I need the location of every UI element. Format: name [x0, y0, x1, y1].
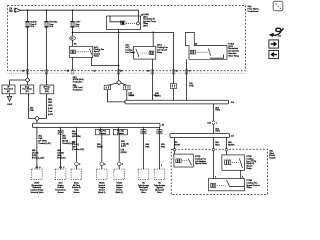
junction dot K3 drop: [152, 32, 154, 34]
wire inline fuse to rail J-B: [107, 90, 125, 102]
sensor component box Mass S3: [71, 169, 82, 180]
svg-text:PNK: PNK: [30, 110, 35, 112]
wire label 54B: [121, 141, 129, 148]
svg-text:63: 63: [175, 71, 177, 73]
wire bus2 to relay K3: [152, 32, 154, 46]
svg-text:(S/P): (S/P): [143, 25, 148, 27]
sensor label Mass S3: [72, 182, 81, 193]
connector circle D4: [100, 162, 104, 166]
box IP fuse block C: [40, 85, 54, 94]
wire Y768 from relay K4: [186, 71, 188, 100]
junction dot K1 drop: [118, 32, 120, 34]
connector pin B5: [71, 70, 74, 74]
svg-text:D: D: [122, 164, 124, 166]
pin A EVAP: [36, 166, 39, 168]
relay K4 switch: [208, 49, 210, 56]
inline fuse 60: [58, 130, 63, 134]
svg-text:PNK: PNK: [145, 146, 150, 148]
connector row dotted line: [8, 72, 246, 74]
svg-text:C: C: [63, 167, 65, 169]
connector pin 45: [26, 70, 29, 74]
junction dot bus2: [72, 32, 74, 34]
power rail J-B upper: [125, 100, 229, 104]
box IP fuse block B: [21, 85, 34, 94]
svg-text:5(B): 5(B): [48, 99, 52, 101]
wire label above ECT: [57, 150, 65, 160]
bus B+ wire: [21, 10, 139, 16]
svg-text:RD/x1: RD/x1: [154, 95, 159, 97]
fuse block underhood label: [248, 6, 260, 13]
relay K2 pin 86 label: [74, 43, 76, 45]
svg-text:(Bank 2): (Bank 2): [116, 192, 124, 194]
wire splice S1 down: [27, 82, 29, 85]
sensor component box HO2S S4: [97, 169, 108, 180]
svg-text:Production: Production: [73, 89, 83, 92]
relay K2 switch: [89, 49, 92, 55]
svg-text:Sensor: Sensor: [73, 192, 79, 194]
sensor label T/C S7: [154, 182, 166, 193]
battery feed arrow: [15, 8, 21, 12]
relay K2 linkage: [76, 51, 89, 53]
svg-text:G103: G103: [7, 104, 12, 106]
wire fuse F1 down: [27, 27, 29, 71]
svg-text:Sensor: Sensor: [58, 192, 64, 194]
relay K4 coil: [190, 50, 195, 54]
icon back arrow button: [269, 50, 279, 58]
wire circle to sensor3: [75, 166, 77, 170]
relay K3 left label: [125, 45, 135, 54]
wire splice S3 to rail J2B: [36, 121, 38, 124]
svg-text:45: 45: [22, 71, 24, 73]
cooling fan enclosure label: [269, 150, 276, 160]
wire label 45B: [38, 135, 51, 146]
wire relay KC to relay KD: [240, 170, 242, 178]
bus ignition wire: [73, 32, 174, 70]
wire label 5 PNK stack: [48, 99, 53, 116]
wire rail to connector K10: [212, 104, 214, 120]
svg-text:(LAT): (LAT): [121, 145, 126, 148]
svg-text:Cmpmt: Cmpmt: [269, 156, 276, 159]
wire 33G to relay KA: [174, 138, 176, 155]
wire relay K1 to bus2: [118, 30, 120, 33]
relay KC label: [246, 156, 256, 170]
wire rail to HO2S1: [100, 127, 102, 161]
junction dot fuse3: [72, 9, 74, 11]
inline fuse on bus2 tail: [170, 84, 176, 89]
connector K10 label: [207, 122, 211, 124]
svg-text:1: 1: [161, 165, 162, 167]
wire splice S1 left branch: [10, 80, 26, 85]
svg-text:J-B: J-B: [231, 136, 235, 138]
svg-text:Valve: Valve: [157, 192, 162, 194]
relay K1 switch: [136, 22, 139, 25]
svg-text:U2: U2: [71, 38, 73, 40]
wire bus to fuse F2: [46, 10, 48, 21]
svg-text:Valve Relay: Valve Relay: [228, 55, 240, 57]
splice S2 diamond: [117, 80, 122, 85]
svg-text:Solenoid Valve: Solenoid Valve: [31, 192, 44, 194]
svg-text:Relay: Relay: [246, 168, 252, 170]
svg-text:(LAT): (LAT): [48, 113, 53, 116]
svg-text:Underhood: Underhood: [248, 10, 260, 13]
icon pan-cursor button: [273, 1, 283, 10]
svg-text:Relay: Relay: [157, 52, 163, 54]
relay KA linkage: [182, 160, 187, 162]
relay KD label: [246, 180, 260, 189]
svg-text:Prodctn: Prodctn: [117, 132, 124, 135]
svg-text:B5: B5: [67, 71, 69, 73]
relay K3 box: [134, 47, 156, 60]
wire label 45B b: [32, 150, 45, 160]
wire label L8A: [129, 92, 136, 97]
relay KD internal wire: [230, 186, 245, 188]
wire label Y768: [189, 83, 195, 87]
sensor component box T/C S6: [138, 169, 149, 180]
svg-text:Production: Production: [73, 81, 83, 84]
wire label 05A upper: [215, 106, 220, 111]
relay K3 linkage: [140, 52, 149, 54]
svg-text:(L40): (L40): [48, 108, 53, 110]
sensor label EVAP S1: [30, 181, 43, 193]
relay KC box: [222, 155, 245, 170]
svg-text:Prodctn(-LAT): Prodctn(-LAT): [38, 142, 51, 145]
wire splice S2 right branch: [121, 83, 127, 85]
svg-text:(Bank 1): (Bank 1): [98, 192, 106, 194]
power rail J-B lower: [170, 134, 230, 138]
sensor label HO2S S4: [98, 182, 106, 193]
sensor component box EVAP S1: [32, 169, 43, 180]
wire 05B to relay KC: [225, 138, 227, 155]
connector pin 36: [117, 70, 120, 74]
box IP fuse block A: [2, 85, 15, 94]
rail J-B lower label: [231, 136, 235, 138]
wire label 05A mid: [215, 127, 220, 132]
wire fuse F3 down: [72, 27, 74, 36]
fuse F3 label: [75, 22, 81, 29]
fuse F2: [45, 22, 49, 27]
splice S3 diamond: [35, 116, 40, 121]
svg-text:1640: 1640: [48, 105, 53, 107]
relay KA label: [195, 156, 208, 165]
relay K4 outline: [186, 32, 228, 59]
pin C ECT: [59, 166, 62, 168]
rail J-B upper label: [231, 102, 235, 104]
connector pin 63: [172, 70, 175, 74]
svg-text:RD/WT: RD/WT: [174, 144, 181, 146]
wire inline box to rail J-B: [173, 89, 175, 101]
relay K3 right label: [157, 44, 168, 54]
svg-text:(Prodctn-LAT): (Prodctn-LAT): [32, 157, 45, 160]
wire rail to EVAP valve: [36, 127, 38, 169]
wire rail to HO2S2: [117, 127, 120, 161]
wire inline fuse right down: [126, 90, 128, 101]
svg-text:PNK: PNK: [161, 146, 166, 148]
relay module box LAN: [113, 129, 127, 134]
connector pin 33G entry: [174, 149, 176, 151]
wire rail to wastegate: [143, 127, 145, 169]
sensor component box HO2S S5: [114, 169, 125, 180]
pin 1 bypass: [161, 165, 162, 167]
svg-text:D: D: [79, 164, 81, 166]
relay KD coil: [211, 184, 216, 188]
relay K2 label: [94, 46, 104, 57]
wire label 05B: [228, 142, 235, 146]
wire oval to relay K2: [72, 41, 74, 47]
relay KC coil: [225, 160, 231, 165]
connector pin 43: [151, 70, 154, 74]
wire connector K10 to rail J-B lower: [212, 125, 214, 134]
svg-text:RD/x1: RD/x1: [129, 95, 134, 97]
rail J2B label: [162, 125, 165, 127]
svg-text:RD/WT: RD/WT: [228, 144, 235, 146]
icon forward arrow button: [269, 40, 279, 48]
wire bus to fuse F3: [72, 10, 74, 21]
relay KD switch: [227, 180, 230, 186]
svg-text:(Prodctn): (Prodctn): [57, 157, 65, 160]
svg-text:RD/1: RD/1: [215, 131, 220, 133]
svg-text:J-B: J-B: [231, 102, 235, 104]
wire label 460 PNK: [30, 107, 35, 111]
relay K4 label: [228, 43, 240, 57]
svg-text:43: 43: [147, 71, 149, 73]
svg-text:(S/I-GRN): (S/I-GRN): [72, 136, 81, 138]
left pin labels K86: [73, 85, 83, 92]
connector pin 05A entry: [212, 149, 214, 151]
sensor label HO2S S5: [116, 182, 124, 193]
svg-text:RD: RD: [9, 11, 13, 13]
svg-text:RD/1: RD/1: [215, 144, 220, 146]
wire label C6P: [155, 93, 162, 97]
relay KA switch: [188, 159, 191, 166]
svg-text:(Prodctn-LAT): (Prodctn-LAT): [72, 148, 85, 151]
pin number labels row: [22, 71, 24, 73]
relay K2 box: [70, 46, 93, 57]
relay KD box: [209, 179, 245, 191]
svg-text:A: A: [39, 166, 41, 169]
left pin labels K83: [73, 77, 84, 84]
sensor label T/C S6: [138, 182, 150, 193]
connector oval C2: [70, 36, 76, 40]
pin A label KD right: [242, 176, 244, 179]
wire splice S2 left branch: [107, 83, 116, 85]
svg-text:Relay: Relay: [94, 55, 99, 57]
sensor label ECT S2: [55, 182, 66, 193]
svg-text:(PK/B): (PK/B): [121, 152, 127, 154]
svg-text:(IP): (IP): [7, 91, 10, 93]
fuse F1: [26, 22, 30, 27]
connector circle D3: [75, 162, 79, 166]
connector circle D5: [117, 162, 121, 166]
relay K1 box: [107, 16, 141, 30]
relay K1 coil wiring: [110, 16, 123, 25]
cooling fan relay dashed enclosure: [171, 149, 267, 194]
wire pin45 to splice S1: [27, 71, 29, 78]
relay module box FAN: [95, 129, 109, 134]
fuse F3: [71, 22, 75, 27]
relay K1 label: [143, 13, 156, 27]
junction dot switch node: [118, 65, 120, 67]
wire bus to fuse F1: [27, 10, 29, 21]
svg-text:86: 86: [74, 43, 76, 45]
svg-text:2B: 2B: [162, 125, 165, 127]
junction dot fuse1: [27, 9, 29, 11]
wire 05A to relay KD: [212, 138, 214, 179]
connector pin 47: [185, 70, 188, 74]
svg-text:Valve: Valve: [141, 192, 146, 194]
labels above rail: [129, 95, 134, 97]
wire label 05A lower: [215, 141, 220, 146]
svg-text:36: 36: [120, 71, 122, 73]
wire rail to sensor3: [75, 127, 77, 161]
wire rail to bypass valve: [159, 127, 161, 169]
wire rail to ECT sensor: [60, 127, 62, 169]
wire label 39G: [161, 144, 166, 148]
svg-text:PNK: PNK: [48, 102, 53, 104]
svg-text:PK/BT: PK/BT: [97, 146, 104, 148]
battery feed label: [9, 8, 13, 13]
relay K1 pin 30 label: [141, 15, 144, 17]
svg-text:(IP): (IP): [26, 91, 29, 93]
sensor component box ECT S2: [55, 169, 66, 180]
wire relay K2 pin85 down: [71, 58, 73, 71]
relay KC linkage: [232, 161, 239, 163]
wire circle to HO2S1: [101, 166, 103, 170]
connector K10: [212, 120, 215, 125]
svg-text:Speed Relay: Speed Relay: [195, 163, 208, 165]
svg-text:Prodctn: Prodctn: [99, 132, 106, 135]
wire pin7 to box C: [46, 71, 48, 85]
svg-text:Relay: Relay: [246, 187, 252, 189]
inline fuse 159: [157, 130, 162, 134]
relay KA box: [174, 154, 193, 167]
wire label 50A: [72, 130, 81, 138]
relay KC switch: [239, 158, 242, 168]
wire circle to HO2S2: [118, 166, 120, 170]
power rail J2B: [32, 123, 160, 127]
sensor component box T/C S7: [154, 169, 165, 180]
wire box A to ground: [9, 94, 11, 97]
ground G103: [7, 96, 12, 101]
inline fuse left of splice S2: [104, 85, 111, 90]
connector pin 7: [45, 70, 48, 74]
svg-text:1: 1: [216, 122, 218, 124]
svg-text:Y768: Y768: [189, 85, 195, 87]
inline fuse 143: [141, 130, 146, 134]
svg-text:Prod: Prod: [48, 111, 52, 113]
fuse F2 label: [49, 21, 58, 29]
svg-text:(I/S): (I/S): [45, 91, 49, 93]
wire C6P from relay K3: [151, 71, 153, 100]
wire label 50B: [72, 141, 85, 151]
wire label 59B: [97, 144, 104, 148]
svg-text:K10: K10: [207, 122, 211, 124]
wire box C down to splice S3: [39, 94, 46, 119]
svg-text:Fan Relay: Fan Relay: [125, 52, 135, 54]
relay KA coil: [176, 159, 181, 163]
icon jump arrow: [270, 28, 283, 35]
junction dot fuse2: [46, 9, 48, 11]
wire relay K3 down: [151, 59, 153, 71]
relay K3 coil: [149, 51, 154, 55]
inline fuse right of splice S2: [124, 85, 131, 90]
connector pin 05B entry: [225, 149, 227, 151]
relay K4 pin 30 label: [195, 44, 198, 46]
wire box B down to splice S3: [29, 94, 35, 119]
wire fuse F2 down: [46, 27, 48, 71]
svg-text:47: 47: [188, 71, 190, 73]
relay K4 linkage: [196, 51, 207, 53]
wire label 34G: [145, 144, 150, 148]
wire label 45C: [62, 136, 75, 146]
wire bus2 tail to inline box: [173, 71, 175, 84]
relay K1 linkage: [126, 22, 136, 24]
svg-text:D: D: [104, 164, 106, 166]
wire relay K4 down: [186, 59, 188, 71]
relay KD linkage: [217, 185, 226, 187]
pin 4 label KD left: [215, 177, 217, 179]
splice S1 diamond: [25, 78, 30, 83]
relay K2 coil: [71, 50, 75, 54]
svg-text:7: 7: [42, 71, 43, 73]
wire pin36 to splice S2: [118, 32, 120, 80]
wire label 33G: [174, 142, 181, 146]
fuse block underhood dashed enclosure: [8, 6, 246, 71]
wire relay K2 switch down: [92, 58, 119, 66]
svg-text:RD/1: RD/1: [215, 110, 220, 112]
relay K4 internal wire: [210, 54, 224, 58]
wire label 57B: [121, 149, 127, 153]
svg-text:58: 58: [93, 71, 95, 73]
fuse F1 label: [30, 22, 37, 29]
relay K3 switch: [136, 49, 139, 57]
